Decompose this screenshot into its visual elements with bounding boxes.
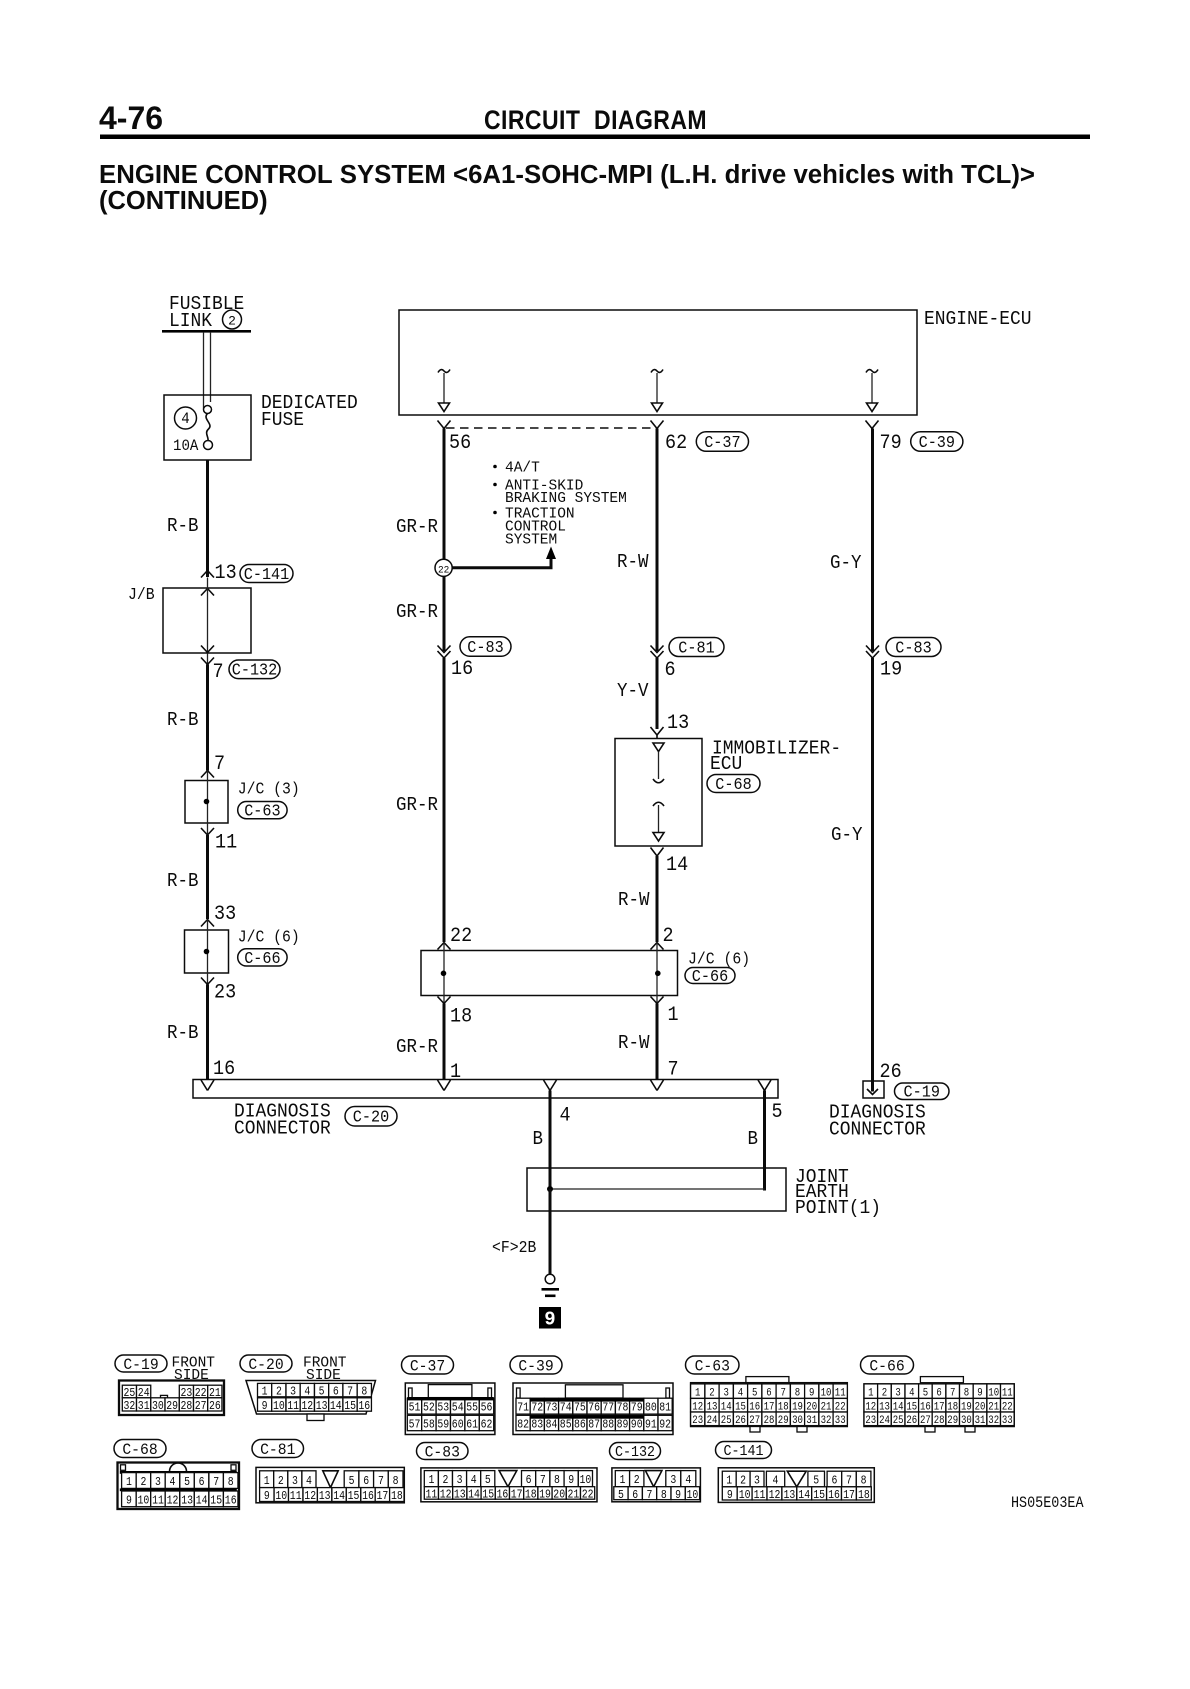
svg-text:C-66: C-66: [869, 1357, 904, 1376]
svg-text:G-Y: G-Y: [831, 825, 863, 846]
immobilizer internal pin bottom: [653, 802, 664, 806]
svg-text:76: 76: [588, 1402, 600, 1415]
svg-text:29: 29: [778, 1415, 789, 1427]
svg-text:12: 12: [769, 1489, 781, 1502]
connector C-19 label: [895, 1083, 950, 1100]
svg-text:C-63: C-63: [695, 1357, 730, 1376]
connector C-83 label bottom: [417, 1443, 469, 1460]
svg-text:1: 1: [619, 1474, 625, 1487]
svg-text:15: 15: [210, 1495, 222, 1508]
svg-text:2: 2: [278, 1475, 284, 1488]
svg-text:4: 4: [560, 1104, 571, 1127]
J/C(6) internal wire left: [443, 943, 445, 1004]
svg-text:30: 30: [792, 1415, 803, 1427]
svg-text:8: 8: [393, 1475, 399, 1488]
filled arrow to systems list: [546, 547, 556, 560]
header rule: [100, 135, 1090, 140]
svg-text:32: 32: [988, 1415, 999, 1427]
long J/C(6) pin 2 chevron: [651, 943, 664, 950]
svg-text:13: 13: [319, 1490, 331, 1503]
svg-text:54: 54: [452, 1402, 464, 1415]
connector C-81 crossing: [651, 646, 664, 653]
svg-text:ECU: ECU: [710, 752, 742, 775]
connector C-83 crossing: [438, 646, 451, 653]
svg-text:15: 15: [344, 1400, 356, 1413]
svg-text:16: 16: [451, 657, 473, 680]
svg-text:22: 22: [438, 564, 449, 576]
svg-text:7: 7: [540, 1474, 546, 1487]
earth bus wire: [550, 1188, 765, 1190]
svg-text:11: 11: [152, 1495, 164, 1508]
svg-text:2: 2: [228, 314, 236, 329]
svg-text:51: 51: [409, 1402, 421, 1415]
connector C-66 pinout: [920, 1377, 963, 1383]
ECU internal pin arrow pin 56: [438, 370, 450, 373]
wire 2B to ground: [549, 1189, 552, 1274]
svg-text:16: 16: [362, 1490, 374, 1503]
svg-text:27: 27: [749, 1415, 760, 1427]
svg-text:53: 53: [437, 1402, 449, 1415]
svg-text:29: 29: [166, 1400, 178, 1413]
C-20 pin 16 fork: [201, 1080, 214, 1091]
svg-text:<F>2B: <F>2B: [492, 1238, 536, 1257]
svg-text:27: 27: [195, 1400, 207, 1413]
svg-text:7: 7: [347, 1386, 353, 1399]
svg-text:15: 15: [813, 1489, 825, 1502]
svg-text:CONNECTOR: CONNECTOR: [234, 1117, 331, 1140]
connector C-68 label bottom: [114, 1440, 166, 1458]
diagnosis connector C-19 terminal box: [863, 1081, 884, 1098]
svg-text:C-81: C-81: [678, 639, 714, 658]
double wire from fusible link: [203, 333, 205, 409]
connector C-81 label: [669, 638, 724, 657]
svg-text:8: 8: [661, 1489, 667, 1502]
svg-text:19: 19: [539, 1489, 551, 1502]
svg-text:6: 6: [526, 1474, 532, 1487]
svg-text:62: 62: [481, 1419, 493, 1432]
svg-text:14: 14: [330, 1400, 342, 1413]
diagnosis connector C-20 box: [193, 1080, 778, 1099]
svg-text:23: 23: [692, 1415, 703, 1427]
C-20 pin 5 fork: [758, 1080, 771, 1091]
wire R-W immobilizer to J/C6: [656, 856, 659, 942]
connector C-141 pinout: [718, 1468, 874, 1503]
svg-text:30: 30: [961, 1415, 972, 1427]
svg-text:3: 3: [290, 1386, 296, 1399]
C-20 pin 1 fork: [438, 1080, 451, 1091]
svg-text:11: 11: [215, 831, 237, 854]
svg-text:G-Y: G-Y: [830, 553, 862, 574]
ECU pin 79 fork: [866, 421, 879, 429]
svg-text:4: 4: [471, 1474, 477, 1487]
svg-text:FUSE: FUSE: [261, 408, 304, 431]
fuse element: [204, 406, 212, 414]
J/C(3) internal wire: [207, 771, 209, 836]
svg-text:18: 18: [450, 1005, 472, 1028]
connector C-68 label: [707, 775, 760, 793]
ENGINE-ECU box: [399, 310, 917, 415]
svg-text:9: 9: [727, 1489, 733, 1502]
svg-text:11: 11: [754, 1489, 766, 1502]
immobilizer pin 13 fork: [651, 727, 664, 735]
svg-text:13: 13: [783, 1489, 795, 1502]
svg-text:23: 23: [214, 981, 236, 1004]
svg-text:R-B: R-B: [167, 710, 199, 731]
connector C-83 label: [460, 637, 511, 656]
J/C(6) pin 23 chevron: [201, 978, 214, 985]
svg-text:C-20: C-20: [248, 1355, 283, 1374]
svg-text:C-19: C-19: [123, 1355, 158, 1374]
svg-text:17: 17: [511, 1489, 523, 1502]
svg-text:3: 3: [670, 1474, 676, 1487]
svg-text:4A/T: 4A/T: [505, 461, 540, 477]
svg-text:C-39: C-39: [518, 1357, 553, 1376]
connector C-39 pinout: [513, 1383, 673, 1435]
svg-text:2: 2: [140, 1476, 146, 1489]
connector C-83 label right: [886, 638, 941, 657]
svg-text:28: 28: [180, 1400, 192, 1413]
svg-text:9: 9: [675, 1489, 681, 1502]
J/C(6) pin 18 chevron: [438, 997, 451, 1004]
svg-text:15: 15: [482, 1489, 494, 1502]
svg-text:12: 12: [440, 1489, 452, 1502]
svg-text:31: 31: [975, 1415, 986, 1427]
svg-text:R-B: R-B: [167, 871, 199, 892]
svg-text:87: 87: [588, 1419, 600, 1432]
svg-text:73: 73: [546, 1402, 558, 1415]
svg-text:91: 91: [645, 1419, 657, 1432]
svg-text:33: 33: [214, 902, 236, 925]
svg-text:ENGINE-ECU: ENGINE-ECU: [924, 307, 1032, 330]
svg-text:13: 13: [181, 1495, 193, 1508]
svg-text:31: 31: [138, 1400, 150, 1413]
wire G-Y ECU 79 to C-83: [871, 429, 874, 652]
connector C-39 label: [911, 432, 963, 452]
svg-text:CIRCUIT DIAGRAM: CIRCUIT DIAGRAM: [484, 105, 707, 135]
connector C-83 pinout: [421, 1468, 597, 1502]
svg-text:14: 14: [666, 853, 688, 876]
svg-text:12: 12: [301, 1400, 313, 1413]
J/C(6) pin 1 chevron: [651, 997, 664, 1004]
svg-text:J/C (6): J/C (6): [238, 928, 300, 947]
joint earth point box: [527, 1168, 786, 1211]
svg-text:18: 18: [858, 1489, 870, 1502]
svg-text:90: 90: [631, 1419, 643, 1432]
connector C-68 pinout: [118, 1463, 240, 1510]
svg-text:3: 3: [457, 1474, 463, 1487]
svg-text:22: 22: [450, 924, 472, 947]
svg-text:16: 16: [496, 1489, 508, 1502]
svg-text:20: 20: [553, 1489, 565, 1502]
earth junction dot: [547, 1186, 553, 1192]
ECU internal pin arrow pin 62: [651, 370, 663, 373]
svg-text:GR-R: GR-R: [396, 795, 438, 816]
connector C-20 label: [345, 1107, 397, 1127]
svg-text:11: 11: [425, 1489, 437, 1502]
svg-text:19: 19: [880, 658, 902, 681]
svg-text:C-83: C-83: [895, 639, 931, 658]
svg-text:3: 3: [155, 1476, 161, 1489]
svg-text:11: 11: [290, 1490, 302, 1503]
svg-text:75: 75: [574, 1402, 586, 1415]
svg-text:J/C (3): J/C (3): [238, 780, 300, 799]
svg-text:11: 11: [287, 1400, 299, 1413]
J/C(3) pin 11 chevron: [201, 828, 214, 835]
svg-text:SYSTEM: SYSTEM: [505, 533, 557, 549]
svg-text:56: 56: [481, 1402, 493, 1415]
wire GR-R ECU 56 to node 22: [443, 429, 446, 561]
wire G-Y C-83 to C-19: [871, 658, 874, 1081]
connector C-81 pinout: [256, 1467, 404, 1502]
svg-text:7: 7: [846, 1475, 852, 1488]
svg-text:R-B: R-B: [167, 1023, 199, 1044]
svg-text:C-132: C-132: [232, 661, 278, 680]
svg-text:GR-R: GR-R: [396, 517, 438, 538]
immobilizer pin 14 fork: [651, 848, 664, 857]
connector C-141 label: [240, 565, 293, 583]
connector C-132 pinout: [612, 1468, 701, 1502]
connector C-66 label: [238, 949, 287, 966]
svg-text:1: 1: [262, 1386, 268, 1399]
svg-text:4: 4: [773, 1475, 779, 1488]
connector C-66 label bottom: [861, 1356, 914, 1374]
svg-text:C-66: C-66: [692, 967, 728, 986]
svg-text:59: 59: [437, 1419, 449, 1432]
connector C-132 pin 7 chevron: [201, 658, 214, 665]
svg-text:2: 2: [634, 1474, 640, 1487]
svg-text:84: 84: [546, 1419, 558, 1432]
svg-text:5: 5: [618, 1489, 624, 1502]
svg-text:32: 32: [123, 1400, 135, 1413]
svg-text:6: 6: [632, 1489, 638, 1502]
wire R-W to diagnosis connector: [656, 1004, 659, 1081]
J/C(6) pin 33 chevron: [201, 920, 214, 927]
svg-text:9: 9: [568, 1474, 574, 1487]
svg-text:4: 4: [304, 1386, 310, 1399]
svg-text:7: 7: [213, 660, 224, 683]
svg-text:5: 5: [349, 1475, 355, 1488]
svg-text:29: 29: [947, 1415, 958, 1427]
svg-text:POINT(1): POINT(1): [795, 1196, 881, 1219]
svg-text:1: 1: [264, 1475, 270, 1488]
J/C(6) junction dot: [204, 949, 210, 955]
svg-text:C-63: C-63: [244, 802, 280, 821]
svg-text:4: 4: [170, 1476, 176, 1489]
svg-text:4: 4: [181, 409, 189, 428]
svg-text:15: 15: [348, 1490, 360, 1503]
junction block J/B box: [163, 588, 251, 653]
wire B pin 5 to earth: [763, 1091, 766, 1191]
svg-text:GR-R: GR-R: [396, 602, 438, 623]
ground reference 9 box: [539, 1307, 561, 1329]
svg-text:8: 8: [228, 1476, 234, 1489]
svg-text:28: 28: [764, 1415, 775, 1427]
connector C-132 label bottom: [610, 1443, 661, 1460]
immobilizer internal pin top: [653, 743, 664, 752]
dashed harness line 56-62: [446, 427, 655, 429]
J/B inner chevron bottom: [201, 646, 214, 653]
bullet list 4A/T ABS TCL: [493, 465, 497, 469]
svg-text:7: 7: [668, 1058, 679, 1081]
connector C-19 pinout: [119, 1381, 224, 1416]
svg-text:C-83: C-83: [425, 1443, 460, 1462]
svg-text:33: 33: [1002, 1415, 1013, 1427]
connector C-63 label bottom: [686, 1356, 740, 1374]
svg-text:Y-V: Y-V: [617, 681, 649, 702]
svg-text:10: 10: [275, 1490, 287, 1503]
svg-text:79: 79: [880, 431, 902, 454]
svg-text:92: 92: [659, 1419, 671, 1432]
svg-text:52: 52: [423, 1402, 435, 1415]
svg-text:14: 14: [196, 1495, 208, 1508]
junction connector J/C(6) long box: [421, 951, 678, 996]
svg-text:13: 13: [316, 1400, 328, 1413]
svg-text:26: 26: [880, 1060, 902, 1083]
svg-text:13: 13: [215, 561, 237, 584]
C-20 pin 4 fork: [544, 1080, 557, 1091]
svg-text:60: 60: [452, 1419, 464, 1432]
svg-text:2: 2: [443, 1474, 449, 1487]
svg-text:14: 14: [798, 1489, 810, 1502]
svg-text:C-68: C-68: [715, 775, 751, 794]
svg-text:57: 57: [409, 1419, 421, 1432]
svg-text:24: 24: [879, 1415, 890, 1427]
svg-text:14: 14: [468, 1489, 480, 1502]
svg-text:55: 55: [466, 1402, 478, 1415]
C-20 pin 7 fork: [651, 1080, 664, 1091]
wire R-B J/C3 to J/C6: [206, 835, 209, 919]
connector C-63 pinout: [746, 1377, 789, 1383]
svg-text:86: 86: [574, 1419, 586, 1432]
J/C(6) internal wire right: [656, 943, 658, 1004]
svg-text:26: 26: [209, 1400, 221, 1413]
svg-text:BRAKING SYSTEM: BRAKING SYSTEM: [505, 491, 627, 507]
connector C-37 pinout: [405, 1383, 495, 1435]
svg-text:62: 62: [665, 431, 687, 454]
svg-text:R-W: R-W: [617, 552, 649, 573]
svg-text:25: 25: [893, 1415, 904, 1427]
svg-text:C-37: C-37: [410, 1357, 445, 1376]
svg-text:5: 5: [184, 1476, 190, 1489]
svg-text:6: 6: [333, 1386, 339, 1399]
svg-text:78: 78: [617, 1402, 629, 1415]
svg-text:10A: 10A: [173, 436, 199, 455]
svg-text:77: 77: [602, 1402, 614, 1415]
J/B internal wire: [207, 578, 209, 665]
svg-text:8: 8: [361, 1386, 367, 1399]
svg-text:18: 18: [525, 1489, 537, 1502]
svg-text:8: 8: [861, 1475, 867, 1488]
connector C-63 label: [238, 802, 287, 819]
svg-text:R-B: R-B: [167, 516, 199, 537]
svg-text:3: 3: [754, 1475, 760, 1488]
ECU pin 56 fork: [438, 421, 451, 429]
svg-text:80: 80: [645, 1402, 657, 1415]
connector C-132 label: [229, 660, 280, 679]
svg-text:B: B: [748, 1129, 759, 1150]
svg-text:5: 5: [772, 1100, 783, 1123]
svg-text:12: 12: [304, 1490, 316, 1503]
svg-text:10: 10: [579, 1474, 591, 1487]
svg-text:C-39: C-39: [919, 433, 955, 452]
svg-text:83: 83: [531, 1419, 543, 1432]
ECU internal pin arrow pin 79: [866, 370, 878, 373]
svg-text:7: 7: [214, 752, 225, 775]
svg-text:89: 89: [617, 1419, 629, 1432]
svg-text:HS05E03EA: HS05E03EA: [1011, 1495, 1084, 1512]
svg-text:5: 5: [485, 1474, 491, 1487]
J/B inner chevron top: [201, 589, 214, 596]
svg-text:9: 9: [544, 1309, 555, 1331]
svg-text:1: 1: [428, 1474, 434, 1487]
svg-text:J/C (6): J/C (6): [688, 950, 750, 969]
svg-text:10: 10: [686, 1489, 698, 1502]
svg-text:16: 16: [213, 1057, 235, 1080]
immobilizer ECU box: [615, 739, 702, 847]
svg-text:2: 2: [663, 924, 674, 947]
svg-text:30: 30: [152, 1400, 164, 1413]
svg-text:4: 4: [685, 1474, 691, 1487]
wire GR-R node 22 to C-83: [443, 576, 446, 651]
connector C-37 label bottom: [402, 1356, 454, 1374]
svg-text:9: 9: [126, 1495, 132, 1508]
ECU pin 62 fork: [651, 421, 664, 429]
svg-text:R-W: R-W: [618, 890, 650, 911]
svg-text:7: 7: [213, 1476, 219, 1489]
svg-text:8: 8: [554, 1474, 560, 1487]
svg-text:71: 71: [517, 1402, 529, 1415]
svg-text:1: 1: [126, 1476, 132, 1489]
svg-text:10: 10: [739, 1489, 751, 1502]
svg-text:88: 88: [602, 1419, 614, 1432]
connector C-20 pinout: [246, 1381, 376, 1415]
svg-text:16: 16: [225, 1495, 237, 1508]
svg-text:C-132: C-132: [615, 1444, 655, 1461]
branch wire to systems arrow: [452, 558, 551, 568]
svg-text:6: 6: [831, 1475, 837, 1488]
dedicated fuse box: [164, 395, 251, 460]
svg-text:16: 16: [358, 1400, 370, 1413]
svg-text:(CONTINUED): (CONTINUED): [99, 187, 268, 215]
svg-text:13: 13: [454, 1489, 466, 1502]
svg-text:10: 10: [273, 1400, 285, 1413]
svg-text:61: 61: [466, 1419, 478, 1432]
svg-text:9: 9: [264, 1490, 270, 1503]
svg-text:ENGINE CONTROL SYSTEM <6A1-SOH: ENGINE CONTROL SYSTEM <6A1-SOHC-MPI (L.H…: [99, 161, 1035, 189]
wire R-B C-132 to J/C3: [206, 665, 209, 771]
connector C-83 crossing right: [866, 646, 879, 653]
svg-text:16: 16: [828, 1489, 840, 1502]
svg-text:82: 82: [517, 1419, 529, 1432]
long J/C(6) pin 22 chevron: [438, 943, 451, 950]
wire R-B J/C6 to diagnosis connector: [206, 985, 209, 1081]
svg-text:81: 81: [659, 1402, 671, 1415]
svg-text:79: 79: [631, 1402, 643, 1415]
svg-text:17: 17: [843, 1489, 855, 1502]
J/C(3) junction dot: [204, 799, 210, 805]
svg-text:C-141: C-141: [244, 565, 290, 584]
J/C(6) junction dot left: [441, 971, 447, 977]
svg-text:17: 17: [376, 1490, 388, 1503]
svg-text:26: 26: [906, 1415, 917, 1427]
connector C-141 label bottom: [716, 1442, 772, 1459]
svg-text:5: 5: [319, 1386, 325, 1399]
svg-text:CONNECTOR: CONNECTOR: [829, 1118, 926, 1141]
svg-text:33: 33: [835, 1415, 846, 1427]
wire B pin 4 to earth: [549, 1091, 552, 1188]
connector C-66 label: [685, 968, 735, 984]
svg-text:C-19: C-19: [904, 1083, 940, 1102]
